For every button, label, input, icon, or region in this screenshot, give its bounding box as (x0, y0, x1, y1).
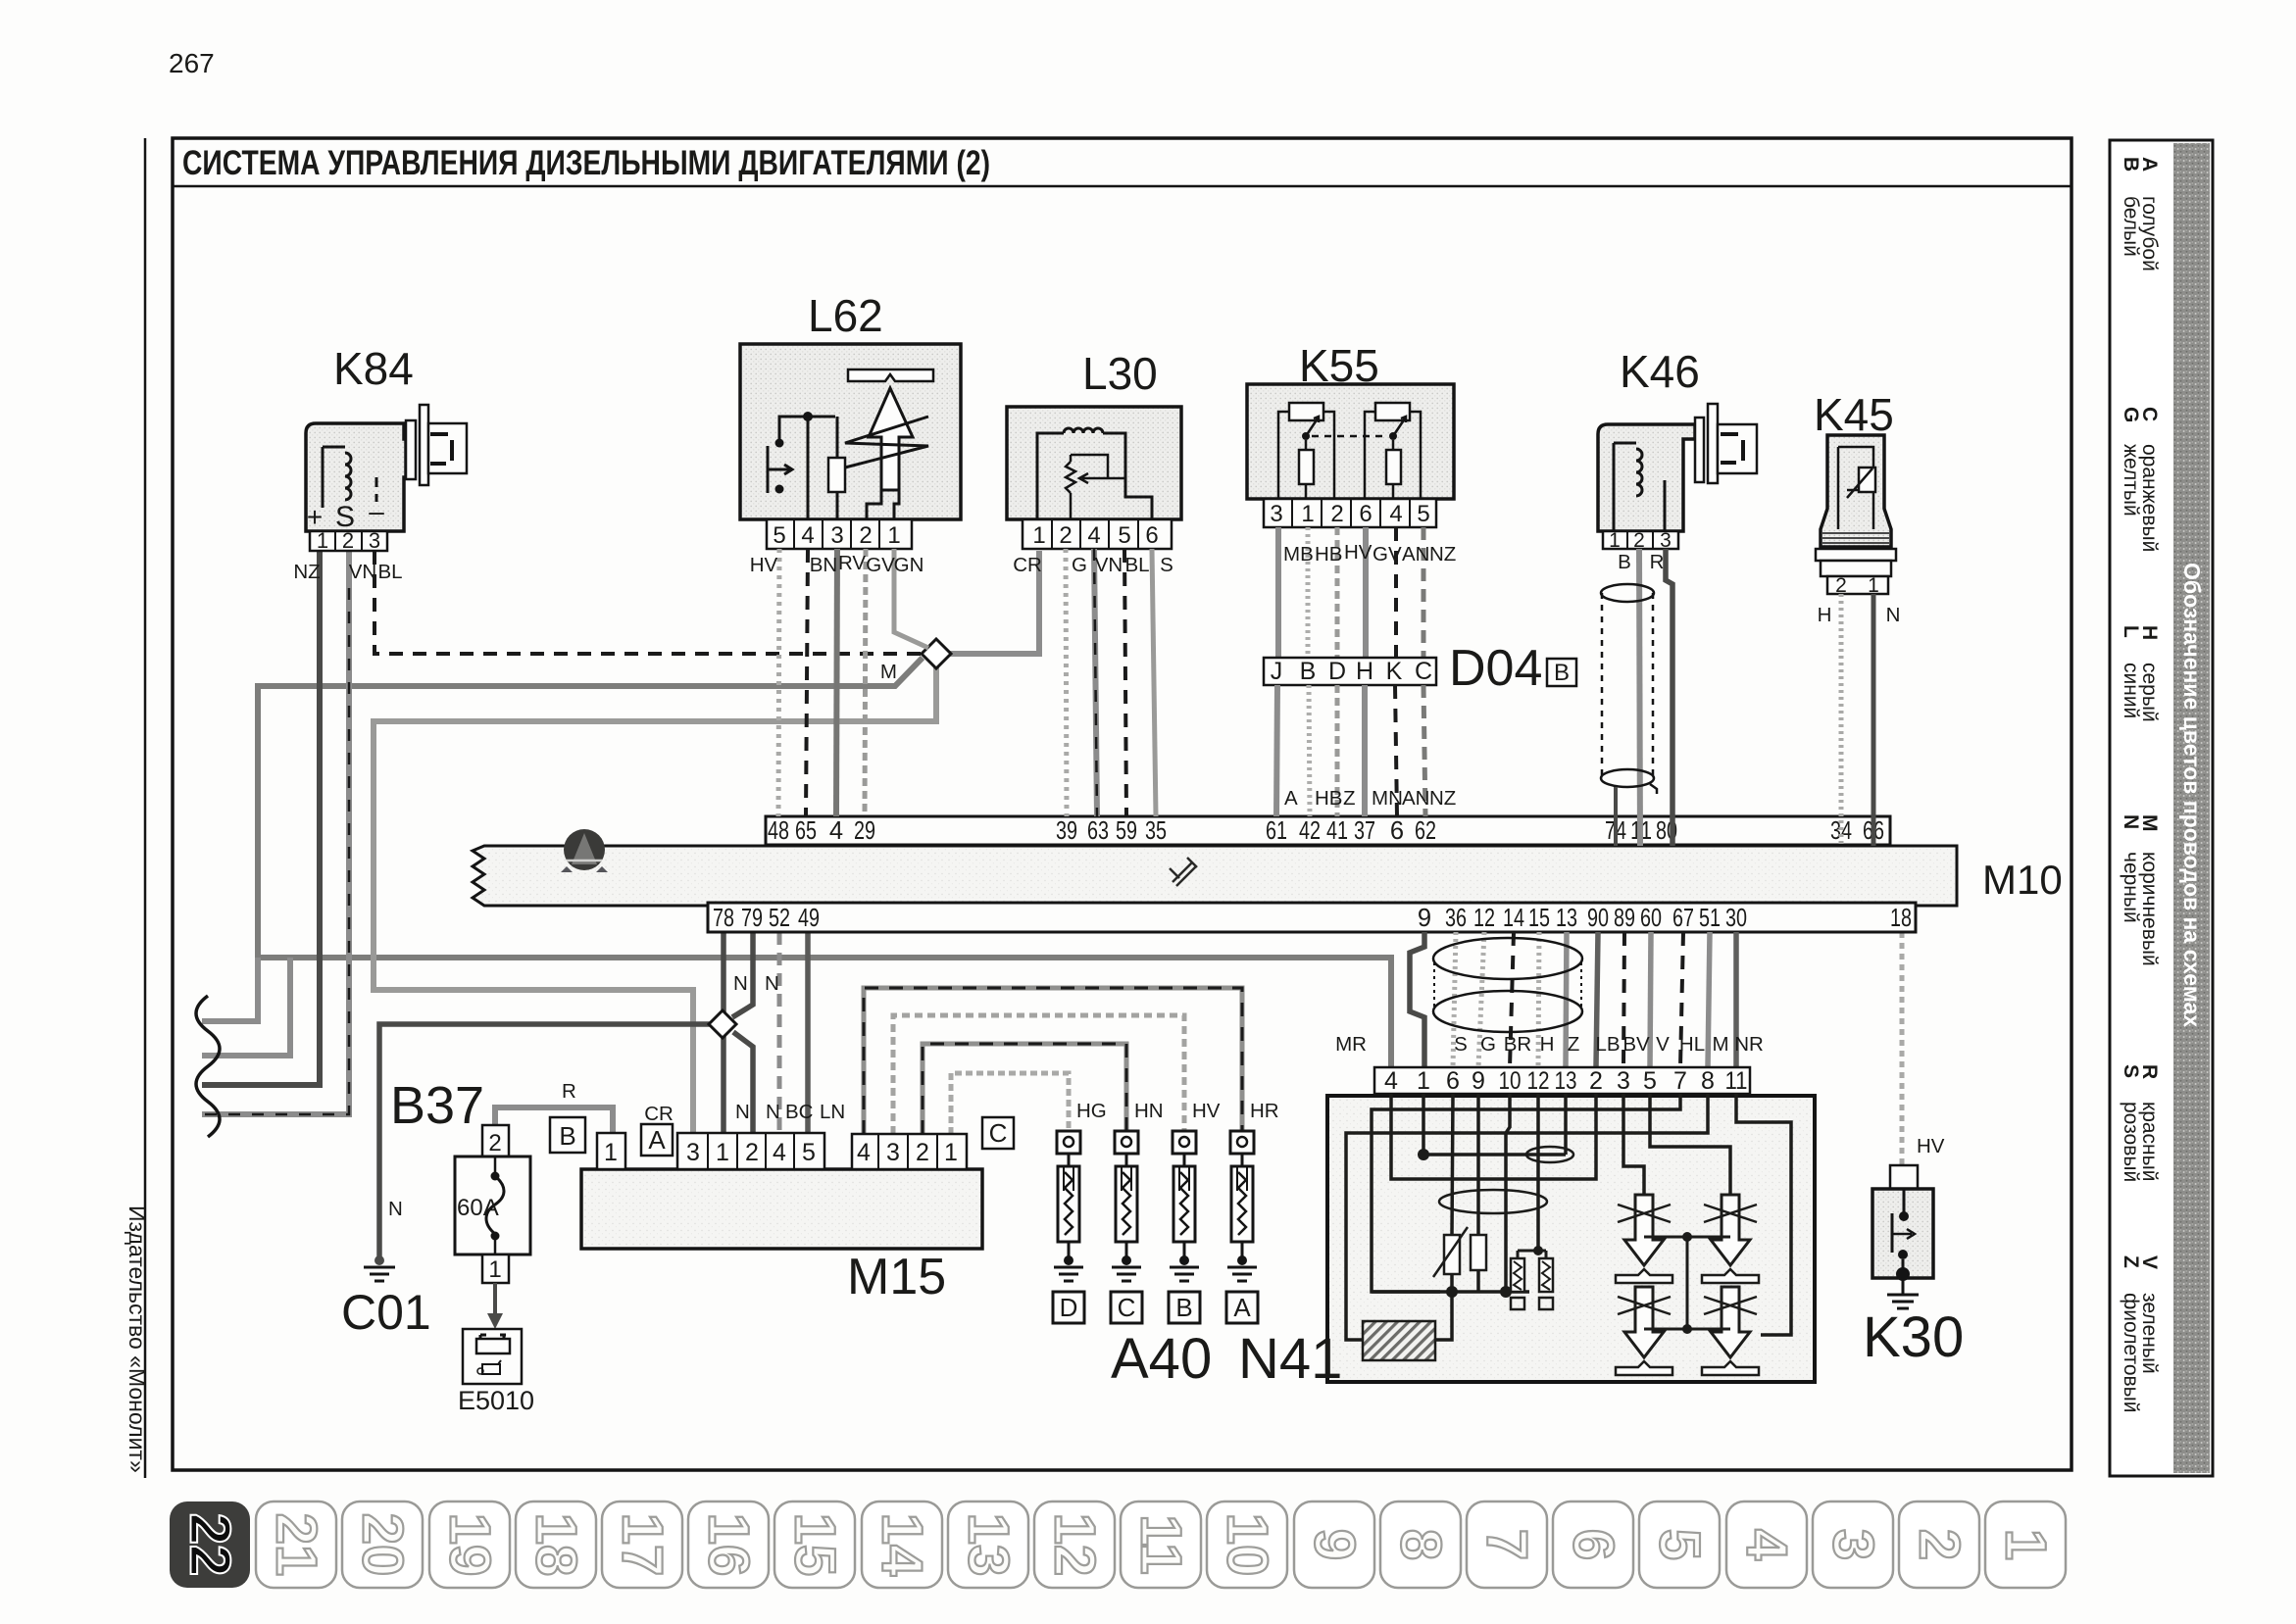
svg-text:67: 67 (1672, 905, 1694, 932)
N41 node bar y1318 (1372, 1286, 1529, 1298)
relay box M15 body (581, 1169, 982, 1249)
wire HV bus18 to K30 (1900, 932, 1905, 1165)
wire 9/MR dark to N41 pin1 (1410, 932, 1424, 1067)
svg-text:1: 1 (1609, 529, 1621, 552)
fuse B37 label (390, 1076, 484, 1135)
A40 wire labels HG HN HV HR (1076, 1100, 1279, 1122)
svg-text:11: 11 (1725, 1067, 1748, 1095)
svg-text:63: 63 (1087, 817, 1109, 845)
ground C01 label (341, 1285, 431, 1340)
harness break squiggle (196, 996, 220, 1137)
svg-text:6: 6 (1390, 817, 1404, 845)
svg-text:4: 4 (829, 817, 843, 845)
svg-text:52: 52 (769, 905, 790, 932)
wire N bus78 to M15 pin1 (721, 932, 726, 1133)
wire 12 to N41 (1478, 932, 1484, 1067)
wire B37 to E5010 with arrow (487, 1283, 503, 1329)
svg-text:4: 4 (1389, 501, 1402, 527)
wire NZ from K84 pin1 to harness break (202, 551, 320, 1085)
svg-text:HL: HL (1679, 1033, 1705, 1056)
svg-text:12: 12 (1527, 1067, 1550, 1095)
svg-text:9: 9 (1472, 1067, 1485, 1095)
svg-text:3: 3 (369, 528, 380, 553)
color legend sidebar box (2110, 140, 2213, 1476)
svg-text:6: 6 (1446, 1067, 1460, 1095)
svg-text:1: 1 (488, 1256, 501, 1283)
svg-text:R: R (562, 1080, 576, 1103)
tab 6 (1553, 1501, 1633, 1588)
legend R/S красный/розовый (2120, 1064, 2161, 1182)
svg-text:62: 62 (1415, 817, 1436, 845)
svg-text:GV: GV (866, 554, 895, 576)
svg-text:10: 10 (1216, 1513, 1279, 1577)
svg-text:89: 89 (1614, 905, 1635, 932)
svg-text:MB: MB (1283, 543, 1314, 566)
K55 relay element 1 (1278, 403, 1334, 499)
svg-text:G: G (1480, 1033, 1496, 1056)
svg-text:5: 5 (1118, 522, 1130, 549)
svg-text:A: A (1233, 1293, 1251, 1322)
svg-text:2: 2 (859, 522, 872, 549)
svg-text:2: 2 (1059, 522, 1072, 549)
svg-text:A: A (648, 1125, 666, 1155)
N41 control module hatched (1363, 1292, 1452, 1360)
svg-text:4: 4 (1735, 1529, 1799, 1560)
svg-text:14: 14 (1503, 905, 1524, 932)
svg-text:4: 4 (801, 522, 814, 549)
K55 wires D04 to bus (1276, 685, 1425, 816)
K46 connector flange (1695, 404, 1757, 483)
label R (562, 1080, 576, 1103)
tab 12 (1034, 1501, 1115, 1588)
tab 14 (862, 1501, 942, 1588)
svg-text:R: R (1650, 551, 1665, 573)
svg-text:16: 16 (697, 1513, 761, 1577)
svg-text:M15: M15 (847, 1249, 946, 1305)
svg-text:1: 1 (1868, 574, 1879, 597)
svg-text:D: D (1060, 1293, 1078, 1322)
tab 8 (1380, 1501, 1461, 1588)
M15 label (847, 1249, 946, 1305)
svg-text:GN: GN (894, 554, 924, 576)
svg-text:4: 4 (1384, 1067, 1398, 1095)
svg-text:78: 78 (713, 905, 734, 932)
N41 injector 3 (1616, 1287, 1672, 1375)
tab 1 (1985, 1501, 2066, 1588)
sensor K45 body (1821, 435, 1891, 547)
svg-text:61: 61 (1266, 817, 1287, 845)
boxed label A (1226, 1292, 1258, 1323)
svg-text:60: 60 (1640, 905, 1662, 932)
svg-text:30: 30 (1725, 905, 1747, 932)
N41 label (1238, 1327, 1342, 1391)
glow plug A40-A (1227, 1131, 1257, 1281)
svg-text:2: 2 (1908, 1529, 1972, 1560)
svg-text:19: 19 (438, 1513, 502, 1577)
N41 internal pin1 node row (1418, 1094, 1573, 1162)
svg-text:15: 15 (783, 1513, 847, 1577)
svg-text:22: 22 (178, 1513, 242, 1577)
svg-text:CR: CR (1013, 554, 1042, 576)
svg-text:HG: HG (1076, 1100, 1107, 1122)
svg-text:L: L (2120, 625, 2142, 638)
svg-text:35: 35 (1145, 817, 1167, 845)
svg-text:N: N (766, 1101, 780, 1123)
switch K30 label (1863, 1305, 1964, 1369)
sensor L30 label (1082, 348, 1158, 399)
svg-text:5: 5 (1643, 1067, 1657, 1095)
svg-text:K30: K30 (1863, 1305, 1964, 1369)
wire harness stub 1 (202, 958, 258, 1021)
svg-text:NZ: NZ (1429, 543, 1456, 566)
svg-text:NZ: NZ (1429, 787, 1456, 810)
svg-text:BN: BN (810, 554, 837, 576)
svg-text:B: B (559, 1121, 575, 1151)
wire 51 to N41 (1708, 932, 1710, 1067)
K55 wire labels lower (1284, 787, 1456, 810)
svg-text:черный: черный (2120, 852, 2142, 923)
bus logo medallion (561, 829, 608, 872)
K55 wires to D04 (1278, 527, 1423, 658)
svg-text:E5010: E5010 (458, 1386, 534, 1415)
svg-text:Издательство «Монолит»: Издательство «Монолит» (125, 1206, 150, 1473)
svg-text:6: 6 (1359, 501, 1372, 527)
K46 wire B (1639, 549, 1640, 846)
svg-text:B: B (1300, 658, 1317, 685)
wire 67 to N41 (1680, 932, 1683, 1067)
boxed label C (1111, 1292, 1142, 1323)
M10 top pin row (766, 816, 1890, 845)
A40 label (1111, 1327, 1212, 1391)
boxed label D (1053, 1292, 1084, 1323)
title (182, 144, 990, 182)
svg-text:9: 9 (1418, 905, 1431, 932)
legend gray bar (2173, 143, 2210, 1473)
svg-text:MN: MN (1372, 787, 1403, 810)
wire R B37 pin2 to M15 pin B1 (495, 1107, 613, 1133)
svg-text:39: 39 (1056, 817, 1077, 845)
N41 wire labels (1335, 1033, 1764, 1056)
K55 wire labels upper (1283, 541, 1456, 566)
svg-text:K84: K84 (333, 343, 414, 394)
svg-text:BL: BL (377, 561, 402, 583)
svg-text:HV: HV (1917, 1135, 1945, 1157)
svg-text:5: 5 (1648, 1529, 1712, 1560)
svg-text:C01: C01 (341, 1285, 431, 1340)
svg-text:HB: HB (1315, 543, 1342, 566)
svg-text:RV: RV (838, 552, 866, 574)
glow plug A40-C (1112, 1131, 1141, 1281)
fuse B37 body (455, 1156, 530, 1255)
tab 5 (1639, 1501, 1720, 1588)
svg-text:11: 11 (1129, 1514, 1193, 1574)
svg-text:15: 15 (1528, 905, 1550, 932)
svg-text:13: 13 (1556, 905, 1577, 932)
legend bar title (2179, 563, 2205, 1027)
K45 wire N (1872, 594, 1876, 846)
battery E5010 box (463, 1329, 522, 1384)
svg-text:41: 41 (1326, 817, 1348, 845)
svg-text:B: B (1554, 660, 1570, 686)
svg-text:N41: N41 (1238, 1327, 1342, 1391)
wire LN bus49 to M15 pin5 (805, 932, 811, 1133)
svg-text:C: C (1415, 658, 1432, 685)
valve L62 label (808, 290, 883, 341)
svg-text:L62: L62 (808, 290, 883, 341)
svg-text:17: 17 (611, 1513, 674, 1577)
wire harness stub 2 (202, 958, 290, 1056)
M15 wire labels CR N N BC LN (644, 1101, 845, 1125)
svg-text:S: S (1160, 554, 1173, 576)
svg-text:1: 1 (1417, 1067, 1430, 1095)
L62 wire BN (806, 549, 808, 816)
M10 label (1982, 857, 2063, 903)
svg-text:H: H (1818, 604, 1832, 626)
tab 22 (current) (170, 1501, 250, 1588)
svg-text:2: 2 (916, 1139, 929, 1166)
svg-text:8: 8 (1701, 1067, 1715, 1095)
svg-text:S: S (2120, 1064, 2142, 1078)
L62 heater arrow symbol (845, 369, 933, 519)
svg-text:AN: AN (1402, 543, 1429, 566)
svg-text:42: 42 (1299, 817, 1321, 845)
wire BL dashed from K84 pin3 to node D1 (374, 551, 923, 654)
svg-text:3: 3 (1822, 1529, 1885, 1560)
N41 internal bus pin7 loop (1372, 1094, 1680, 1292)
svg-text:GV: GV (1373, 543, 1402, 566)
wire 36 to N41 (1453, 932, 1456, 1067)
svg-text:LB: LB (1595, 1033, 1620, 1056)
svg-text:Z: Z (1568, 1033, 1580, 1056)
N41 internal big shield ellipse (1439, 1190, 1547, 1213)
legend C/G оранжевый/желтый (2120, 407, 2161, 552)
svg-text:3: 3 (686, 1139, 700, 1166)
svg-text:B: B (1175, 1293, 1192, 1322)
svg-text:СИСТЕМА УПРАВЛЕНИЯ ДИЗЕЛЬНЫМИ: СИСТЕМА УПРАВЛЕНИЯ ДИЗЕЛЬНЫМИ ДВИГАТЕЛЯМ… (182, 144, 990, 182)
boxed label C (982, 1117, 1014, 1149)
svg-text:C: C (989, 1118, 1008, 1148)
N41 internal bus pin11 right loop (1736, 1094, 1791, 1335)
svg-text:K: K (1386, 658, 1403, 685)
wire HN nest M15C2 to plug (923, 1044, 1126, 1134)
N41 injector 1 (1616, 1195, 1672, 1283)
svg-text:VN: VN (1095, 554, 1123, 576)
battery E5010 label (458, 1386, 534, 1415)
N41 pin3 pin5 drops (1623, 1094, 1730, 1195)
tab 3 (1813, 1501, 1893, 1588)
wire N ground from node D2 to C01 (379, 1024, 710, 1258)
svg-text:G: G (1072, 554, 1087, 576)
K55 relay element 2 (1365, 403, 1421, 499)
K46 pin row (1603, 529, 1678, 552)
K30 ground (1887, 1278, 1919, 1308)
svg-text:J: J (1271, 658, 1283, 685)
svg-text:H: H (1356, 658, 1373, 685)
svg-text:G: G (2120, 407, 2142, 422)
svg-text:фиолетовый: фиолетовый (2120, 1293, 2142, 1413)
svg-text:M: M (1712, 1033, 1728, 1056)
svg-text:2: 2 (488, 1130, 501, 1156)
K45 flange (1816, 549, 1896, 576)
wire 13 to N41 (1566, 932, 1567, 1067)
wire 15 to N41 (1538, 932, 1539, 1067)
M15 pin row C (852, 1134, 967, 1169)
wire N bus79 to M15 pin2 (732, 932, 753, 1133)
boxed label A (641, 1124, 673, 1156)
svg-text:–: – (369, 496, 384, 526)
svg-text:1: 1 (887, 522, 900, 549)
svg-text:D04: D04 (1449, 640, 1542, 697)
node D2 junction diamond (709, 1010, 736, 1038)
svg-text:5: 5 (802, 1139, 816, 1166)
legend A/B голубой/белый (2120, 157, 2161, 271)
svg-text:HB: HB (1315, 787, 1342, 810)
N41 internal bus pin8 loop (1346, 1094, 1708, 1340)
svg-text:79: 79 (741, 905, 763, 932)
connector D04 label (1449, 640, 1542, 697)
tab 7 (1467, 1501, 1547, 1588)
svg-text:6: 6 (1145, 522, 1158, 549)
L62 wire GN to node D1 (894, 549, 928, 648)
L62 pin row (767, 519, 912, 549)
svg-text:MR: MR (1335, 1033, 1367, 1056)
sensor K45 label (1814, 389, 1894, 440)
tab 13 (948, 1501, 1028, 1588)
N41 cable shield ellipses (1433, 938, 1582, 1032)
tab 19 (429, 1501, 510, 1588)
L30 internal coil (1037, 428, 1152, 519)
sensor L30 body (1007, 407, 1181, 519)
svg-text:21: 21 (265, 1513, 328, 1577)
N41 resistor on pin9 (1471, 1094, 1486, 1292)
svg-text:желтый: желтый (2120, 444, 2142, 517)
svg-text:7: 7 (1475, 1529, 1539, 1560)
label N at C01 wire (388, 1198, 403, 1220)
L62 wire labels (750, 552, 924, 576)
bus cut-cable mark (1170, 858, 1197, 886)
wire 90 to N41 (1596, 932, 1598, 1067)
svg-text:HV: HV (1344, 541, 1373, 564)
svg-text:37: 37 (1354, 817, 1375, 845)
svg-text:Обозначение цветов проводов на: Обозначение цветов проводов на схемах (2179, 563, 2205, 1027)
svg-text:BC: BC (785, 1101, 814, 1123)
node D1 junction diamond (922, 639, 951, 668)
svg-text:M: M (880, 661, 897, 683)
K46 cable shield (1601, 584, 1657, 794)
svg-text:2: 2 (1633, 529, 1645, 552)
N41 solenoid coils (1511, 1094, 1553, 1309)
sensor K84 label (333, 343, 414, 394)
wire BC bus52 to M15 pin4 (777, 932, 782, 1133)
N41 injector 2 (1702, 1195, 1759, 1283)
K55 pin row (1264, 499, 1436, 527)
diagram frame (173, 138, 2071, 1470)
M15 pin row A (677, 1133, 824, 1169)
svg-text:3: 3 (1617, 1067, 1630, 1095)
svg-text:1: 1 (944, 1139, 958, 1166)
svg-text:5: 5 (1417, 501, 1429, 527)
svg-text:3: 3 (1270, 501, 1282, 527)
legend M/N коричневый/черный (2120, 814, 2161, 966)
D04 boxed B (1547, 659, 1576, 686)
svg-text:BR: BR (1504, 1033, 1531, 1056)
svg-text:HR: HR (1250, 1100, 1279, 1122)
svg-text:HN: HN (1134, 1100, 1164, 1122)
svg-text:29: 29 (854, 817, 875, 845)
N labels above diamond D2 (733, 972, 779, 995)
ECU connector M10 bus bar (473, 846, 1957, 906)
svg-text:AN: AN (1402, 787, 1429, 810)
M15 pin B1 (597, 1133, 625, 1169)
connector D04 row (1264, 658, 1436, 685)
svg-text:10: 10 (1499, 1067, 1522, 1095)
svg-text:H: H (1540, 1033, 1555, 1056)
svg-text:1: 1 (716, 1139, 729, 1166)
K45 wire H (1839, 594, 1844, 846)
L30 wire G (1066, 549, 1067, 816)
wire 89 to N41 (1623, 932, 1624, 1067)
svg-text:20: 20 (351, 1513, 415, 1577)
svg-text:Z: Z (2120, 1255, 2142, 1268)
tab 2 (1899, 1501, 1979, 1588)
L62 internal resistor (828, 417, 845, 519)
svg-text:2: 2 (342, 528, 354, 553)
L30 internal potentiometer (1066, 455, 1125, 519)
svg-text:48: 48 (768, 817, 789, 845)
svg-text:18: 18 (1890, 905, 1912, 932)
svg-text:C: C (1118, 1293, 1136, 1322)
svg-text:3: 3 (830, 522, 843, 549)
N41 pin10 drop (1506, 1094, 1510, 1292)
ground C01 symbol (364, 1255, 395, 1281)
svg-text:65: 65 (795, 817, 817, 845)
svg-text:3: 3 (886, 1139, 900, 1166)
sensor K46 body (1598, 424, 1695, 531)
svg-text:2: 2 (1330, 501, 1343, 527)
svg-text:CR: CR (644, 1103, 674, 1125)
K55 ganged link dashes (1312, 435, 1387, 438)
svg-text:BV: BV (1622, 1033, 1650, 1056)
injector unit N41 connector row (1374, 1067, 1750, 1095)
svg-text:4: 4 (857, 1139, 871, 1166)
svg-text:Z: Z (1343, 787, 1356, 810)
wire CR from node D1 to M15 pin3 (374, 667, 936, 1133)
publisher vertical text (125, 1206, 150, 1473)
wire 60 to N41 (1650, 932, 1651, 1067)
svg-text:1: 1 (1301, 501, 1314, 527)
svg-text:51: 51 (1699, 905, 1721, 932)
N41 injector 4 (1702, 1287, 1759, 1375)
L30 wire labels (1013, 554, 1173, 576)
tab 21 (256, 1501, 336, 1588)
sensor K84 coil + electrodes (307, 447, 384, 533)
svg-text:S: S (1454, 1033, 1468, 1056)
svg-text:1: 1 (604, 1139, 618, 1166)
svg-text:90: 90 (1587, 905, 1609, 932)
svg-text:5: 5 (773, 522, 785, 549)
legend V/Z зеленый/фиолетовый (2120, 1255, 2161, 1413)
svg-text:розовый: розовый (2120, 1102, 2142, 1182)
svg-text:3: 3 (1660, 529, 1672, 552)
svg-text:7: 7 (1673, 1067, 1687, 1095)
wire HR nest M15C4 to plug (864, 988, 1242, 1134)
K45 pin row (1827, 574, 1888, 597)
svg-text:HV: HV (750, 554, 778, 576)
svg-text:4: 4 (1087, 522, 1100, 549)
tab 20 (342, 1501, 423, 1588)
svg-text:N: N (765, 972, 779, 995)
svg-text:A: A (1284, 787, 1298, 810)
